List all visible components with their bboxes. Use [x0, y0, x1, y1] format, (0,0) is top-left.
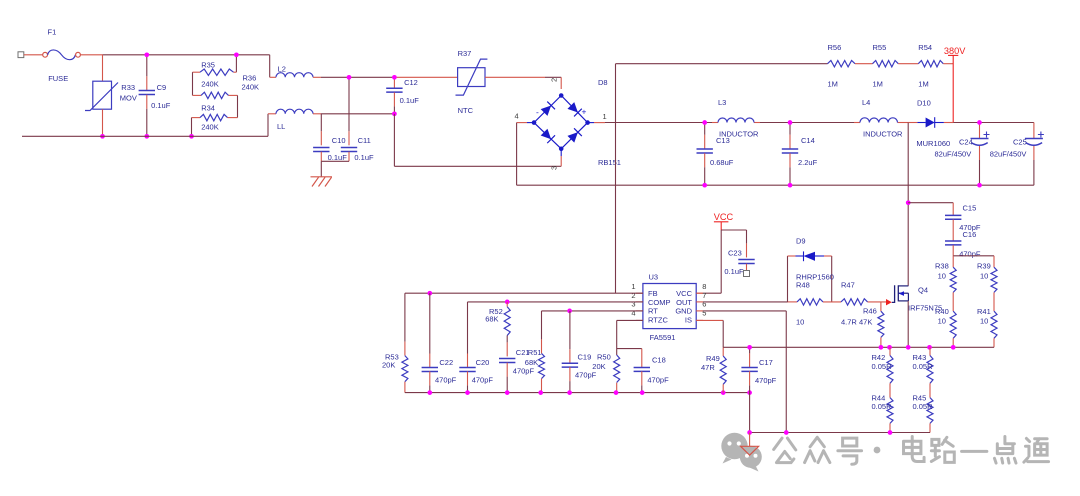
bridge rectifier D8 — [532, 93, 590, 151]
svg-text:D8: D8 — [598, 78, 608, 87]
svg-text:INDUCTOR: INDUCTOR — [863, 130, 903, 139]
wire — [898, 122, 909, 124]
earth ground — [311, 177, 333, 187]
wire — [953, 255, 994, 257]
svg-text:L2: L2 — [278, 65, 286, 74]
wire — [855, 63, 873, 65]
svg-text:R45: R45 — [913, 393, 927, 402]
capacitor C10 — [313, 114, 347, 162]
svg-text:RT: RT — [648, 307, 658, 316]
pin 3 of U3 — [631, 300, 643, 311]
svg-text:4.7R: 4.7R — [841, 318, 857, 327]
wire — [80, 54, 102, 56]
pin 4 of U3 — [631, 308, 643, 320]
svg-text:R55: R55 — [873, 43, 887, 52]
svg-text:GND: GND — [675, 307, 692, 316]
capacitor C11 — [341, 77, 374, 162]
wire — [394, 76, 457, 78]
wire — [560, 77, 562, 89]
svg-text:L4: L4 — [862, 98, 870, 107]
svg-text:1M: 1M — [828, 80, 838, 89]
svg-text:R33: R33 — [121, 83, 135, 92]
watermark icon — [721, 433, 762, 472]
svg-text:D10: D10 — [917, 99, 931, 108]
wire — [993, 292, 995, 311]
junction — [189, 134, 194, 139]
svg-text:470pF: 470pF — [513, 367, 535, 376]
svg-text:82uF/450V: 82uF/450V — [990, 150, 1027, 159]
svg-text:10: 10 — [980, 271, 988, 280]
junction — [144, 52, 149, 57]
svg-text:7: 7 — [702, 291, 706, 300]
svg-text:MUR1060: MUR1060 — [916, 139, 950, 148]
watermark text 公众号·电路一点通 — [774, 437, 1049, 465]
svg-text:D9: D9 — [796, 237, 806, 246]
svg-text:82uF/450V: 82uF/450V — [935, 150, 972, 159]
wire — [235, 55, 237, 72]
svg-text:IRF75N75: IRF75N75 — [908, 304, 942, 313]
resistor R50 — [592, 353, 619, 393]
svg-text:0.1uF: 0.1uF — [354, 153, 374, 162]
wire — [468, 301, 643, 303]
inductor L3 — [718, 98, 759, 139]
svg-text:1: 1 — [603, 112, 607, 121]
svg-text:R54: R54 — [918, 43, 932, 52]
junction — [879, 345, 884, 350]
wire — [889, 383, 891, 397]
resistor R54 — [918, 43, 943, 89]
svg-text:240K: 240K — [201, 122, 219, 131]
junction — [144, 134, 149, 139]
wire — [394, 165, 561, 167]
resistor R45 — [913, 393, 934, 432]
resistor R34 — [192, 104, 238, 132]
capacitor C15 — [945, 203, 981, 232]
wire — [269, 55, 271, 78]
svg-text:C19: C19 — [578, 353, 592, 362]
power 380V — [944, 46, 966, 123]
svg-text:VCC: VCC — [676, 289, 692, 298]
wire — [616, 63, 828, 65]
capacitor C19 — [562, 311, 597, 393]
pin 8 of U3 — [696, 282, 706, 293]
svg-text:FB: FB — [648, 289, 658, 298]
svg-text:R44: R44 — [872, 393, 886, 402]
wire — [605, 122, 718, 124]
svg-text:R56: R56 — [828, 43, 842, 52]
resistor R43 — [913, 347, 934, 383]
svg-text:3: 3 — [631, 300, 635, 309]
svg-text:U3: U3 — [649, 273, 659, 282]
svg-text:R51: R51 — [528, 348, 542, 357]
resistor R55 — [873, 43, 899, 89]
svg-text:+: + — [582, 107, 587, 117]
svg-text:C22: C22 — [439, 358, 453, 367]
svg-text:1: 1 — [631, 282, 635, 291]
junction — [977, 120, 982, 125]
wire — [703, 301, 797, 303]
svg-text:R42: R42 — [872, 353, 886, 362]
junction — [640, 390, 645, 395]
svg-text:0.1uF: 0.1uF — [400, 96, 420, 105]
svg-text:0.1uF: 0.1uF — [151, 101, 171, 110]
svg-text:R37: R37 — [458, 49, 472, 58]
junction — [505, 300, 510, 305]
junction — [567, 390, 572, 395]
svg-text:R34: R34 — [201, 104, 215, 113]
svg-text:LL: LL — [277, 122, 285, 131]
svg-text:R43: R43 — [913, 353, 927, 362]
svg-text:20K: 20K — [382, 361, 395, 370]
svg-text:MOV: MOV — [120, 94, 137, 103]
wire — [943, 63, 953, 65]
svg-text:6: 6 — [702, 300, 706, 309]
junction — [702, 120, 707, 125]
resistor R40 — [935, 307, 956, 347]
junction — [747, 430, 752, 435]
resistor R56 — [828, 43, 856, 89]
svg-text:C20: C20 — [476, 358, 490, 367]
capacitor C17 — [741, 347, 776, 392]
junction — [614, 390, 619, 395]
wire — [237, 95, 239, 117]
junction — [347, 75, 352, 80]
wire — [22, 135, 268, 137]
pin 1 of D8 — [603, 112, 607, 121]
resistor R52 — [485, 302, 510, 336]
capacitor C9 — [139, 55, 171, 137]
svg-text:0.05R: 0.05R — [872, 402, 893, 411]
svg-text:R35: R35 — [201, 61, 215, 70]
svg-text:OUT: OUT — [676, 298, 692, 307]
svg-text:NTC: NTC — [458, 106, 474, 115]
diode D10 — [908, 99, 953, 149]
svg-text:0.05R: 0.05R — [913, 362, 934, 371]
junction — [747, 390, 752, 395]
wire — [720, 230, 722, 293]
junction — [392, 111, 397, 116]
junction — [505, 390, 510, 395]
junction — [784, 430, 789, 435]
wire — [722, 320, 724, 347]
svg-text:1M: 1M — [918, 80, 928, 89]
svg-text:C12: C12 — [404, 78, 418, 87]
wire — [405, 292, 643, 294]
svg-text:RTZC: RTZC — [648, 315, 668, 324]
svg-text:470pF: 470pF — [575, 371, 597, 380]
wire — [192, 72, 194, 95]
wire — [750, 432, 930, 434]
wire — [754, 122, 860, 124]
varistor R33 — [85, 55, 137, 137]
svg-text:4: 4 — [515, 112, 519, 121]
wire — [321, 160, 349, 162]
junction — [465, 390, 470, 395]
capacitor C22 — [422, 293, 457, 392]
wire — [696, 319, 723, 321]
junction — [906, 200, 911, 205]
wire — [405, 392, 750, 394]
capacitor C13 — [697, 123, 734, 186]
resistor R48 — [796, 281, 823, 327]
svg-text:C16: C16 — [963, 230, 977, 239]
svg-text:10: 10 — [980, 317, 988, 326]
capacitor C25 — [990, 123, 1044, 186]
svg-text:C13: C13 — [716, 136, 730, 145]
wire — [696, 292, 721, 294]
resistor R35 — [193, 61, 237, 89]
wire — [617, 348, 642, 350]
junction — [427, 390, 432, 395]
wire — [24, 54, 43, 56]
wire — [785, 311, 787, 433]
resistor R39 — [977, 256, 997, 293]
svg-text:C25: C25 — [1013, 138, 1027, 147]
svg-text:470pF: 470pF — [472, 376, 494, 385]
pin 7 of U3 — [696, 291, 706, 302]
wire — [320, 161, 322, 177]
capacitor C23 — [724, 230, 754, 276]
wire — [267, 114, 269, 137]
wire — [907, 123, 909, 286]
capacitor C20 — [459, 302, 493, 393]
svg-text:47K: 47K — [859, 318, 872, 327]
resistor R41 — [977, 307, 997, 347]
resistor R38 — [935, 256, 956, 293]
pin 3 of D8 — [550, 166, 559, 170]
wire — [545, 76, 561, 78]
pin 1 of U3 — [631, 282, 643, 293]
wire — [898, 63, 918, 65]
transistor Q4 — [886, 285, 942, 312]
svg-text:2: 2 — [550, 78, 559, 82]
resistor R49 — [701, 347, 726, 392]
wire — [908, 202, 953, 204]
svg-text:68K: 68K — [485, 315, 498, 324]
junction — [392, 75, 397, 80]
fuse F1 — [43, 28, 81, 83]
svg-text:10: 10 — [796, 318, 804, 327]
svg-text:240K: 240K — [242, 82, 260, 91]
inductor LL — [268, 109, 321, 131]
wire — [721, 229, 746, 231]
capacitor C16 — [945, 230, 981, 258]
junction — [951, 345, 956, 350]
diode D9 — [788, 237, 834, 302]
terminal C23 — [744, 271, 750, 277]
svg-text:L3: L3 — [718, 98, 726, 107]
svg-text:0.68uF: 0.68uF — [710, 158, 734, 167]
wire — [588, 122, 605, 124]
junction — [747, 345, 752, 350]
wire — [703, 310, 786, 312]
wire — [617, 319, 643, 321]
resistor R42 — [872, 347, 894, 383]
capacitor C24 — [935, 123, 990, 186]
svg-text:240K: 240K — [201, 79, 219, 88]
pin 5 of U3 — [696, 308, 706, 320]
resistor R47 — [841, 281, 868, 327]
svg-text:COMP: COMP — [648, 298, 671, 307]
resistor R51 — [528, 311, 545, 393]
wire — [823, 301, 841, 303]
wire — [517, 184, 1034, 186]
svg-text:VCC: VCC — [714, 212, 734, 222]
svg-text:2: 2 — [631, 291, 635, 300]
svg-text:C14: C14 — [801, 136, 815, 145]
svg-text:F1: F1 — [48, 28, 57, 37]
capacitor C18 — [634, 356, 669, 393]
svg-text:470pF: 470pF — [435, 376, 457, 385]
svg-text:8: 8 — [702, 282, 706, 291]
wire — [191, 118, 193, 137]
svg-text:R39: R39 — [977, 262, 991, 271]
pin 2 of D8 — [550, 78, 559, 82]
junction — [702, 183, 707, 188]
svg-text:0.1uF: 0.1uF — [328, 153, 348, 162]
pin 6 of U3 — [696, 300, 706, 311]
wire — [560, 149, 562, 167]
svg-text:R36: R36 — [243, 73, 257, 82]
svg-text:R48: R48 — [796, 281, 810, 290]
wire — [952, 292, 954, 311]
wire — [103, 54, 270, 56]
junction — [721, 390, 726, 395]
svg-text:C11: C11 — [358, 136, 371, 145]
wire — [516, 123, 518, 186]
svg-text:10: 10 — [938, 271, 946, 280]
wire — [907, 301, 909, 347]
terminal J1 — [18, 52, 24, 58]
wire — [723, 346, 994, 348]
junction — [788, 183, 793, 188]
svg-text:470pF: 470pF — [959, 249, 981, 258]
junction — [906, 345, 911, 350]
svg-text:C15: C15 — [963, 204, 977, 213]
junction — [977, 183, 982, 188]
IC U3 FA5591 — [643, 273, 696, 343]
svg-text:C9: C9 — [157, 83, 167, 92]
junction — [100, 134, 105, 139]
svg-text:-: - — [536, 107, 539, 117]
svg-text:FA5591: FA5591 — [650, 333, 676, 342]
junction — [788, 120, 793, 125]
capacitor C12 — [386, 77, 419, 114]
wire — [749, 393, 751, 433]
wire — [542, 310, 643, 312]
svg-text:470pF: 470pF — [755, 376, 777, 385]
svg-text:R41: R41 — [977, 307, 991, 316]
svg-text:RB151: RB151 — [598, 158, 621, 167]
wire — [615, 64, 617, 294]
svg-text:47R: 47R — [701, 363, 715, 372]
thermistor R37 — [456, 49, 488, 115]
wire — [321, 113, 394, 115]
inductor L4 — [860, 98, 903, 139]
svg-text:R38: R38 — [935, 262, 949, 271]
svg-text:0.05R: 0.05R — [872, 362, 893, 371]
capacitor C14 — [782, 123, 818, 186]
resistor R46 — [859, 302, 884, 347]
svg-text:3: 3 — [550, 166, 559, 170]
label D8 — [598, 78, 608, 87]
svg-text:C23: C23 — [728, 249, 742, 258]
svg-text:20K: 20K — [592, 362, 605, 371]
wire — [641, 349, 643, 368]
svg-text:5: 5 — [702, 308, 706, 317]
inductor L2 — [270, 65, 321, 78]
junction — [538, 390, 543, 395]
power VCC — [714, 212, 734, 230]
svg-text:R47: R47 — [841, 281, 855, 290]
power ground — [741, 433, 759, 456]
svg-text:FUSE: FUSE — [48, 74, 68, 83]
junction — [427, 291, 432, 296]
svg-text:C17: C17 — [759, 358, 773, 367]
label RB151 — [598, 158, 621, 167]
wire — [393, 114, 395, 167]
resistor R44 — [872, 393, 894, 432]
junction — [887, 345, 892, 350]
svg-text:R50: R50 — [597, 353, 611, 362]
wire — [616, 320, 618, 355]
svg-text:470pF: 470pF — [647, 375, 669, 384]
capacitor C21 — [499, 336, 538, 393]
svg-text:C24: C24 — [959, 138, 973, 147]
svg-text:10: 10 — [938, 317, 946, 326]
resistor R36 — [193, 73, 260, 98]
svg-text:380V: 380V — [944, 46, 966, 56]
resistor R53 — [382, 293, 408, 392]
junction — [888, 430, 893, 435]
svg-text:Q4: Q4 — [918, 286, 928, 295]
wire — [868, 301, 886, 303]
wire — [517, 122, 534, 124]
wire — [485, 76, 545, 78]
svg-text:IS: IS — [685, 315, 692, 324]
junction — [927, 345, 932, 350]
svg-text:C18: C18 — [652, 356, 666, 365]
svg-text:0.1uF: 0.1uF — [724, 267, 744, 276]
svg-text:R49: R49 — [706, 354, 720, 363]
junction — [567, 309, 572, 314]
wire — [321, 76, 394, 78]
svg-text:0.05R: 0.05R — [913, 402, 934, 411]
svg-text:2.2uF: 2.2uF — [798, 158, 818, 167]
pin 4 of D8 — [515, 112, 519, 121]
wire — [953, 122, 1034, 124]
svg-text:C10: C10 — [332, 136, 346, 145]
svg-text:R46: R46 — [863, 307, 877, 316]
svg-text:1M: 1M — [873, 80, 883, 89]
pin 2 of U3 — [631, 291, 643, 302]
junction — [234, 52, 239, 57]
svg-text:4: 4 — [631, 308, 635, 317]
wire — [929, 383, 931, 397]
